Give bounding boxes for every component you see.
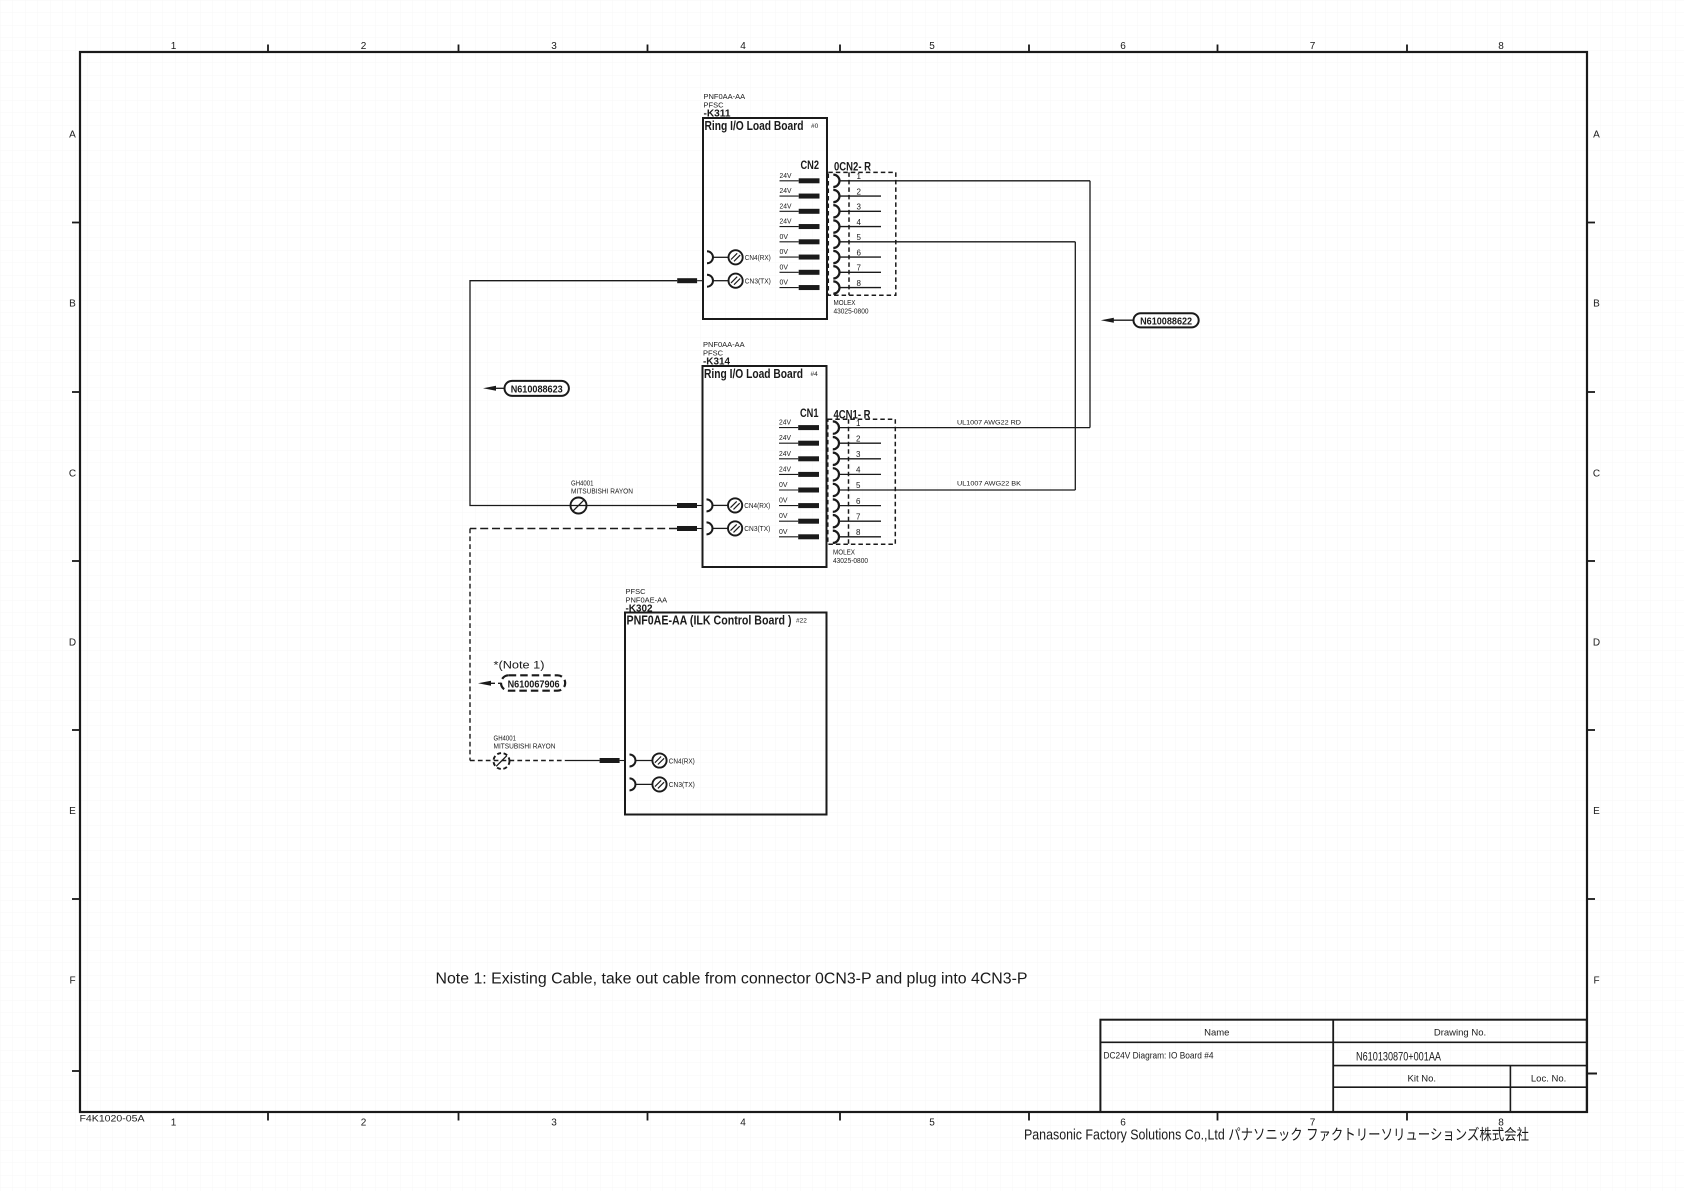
svg-text:Panasonic Factory Solutions Co: Panasonic Factory Solutions Co.,Ltd パナソニ… [1024,1127,1529,1144]
svg-text:2: 2 [361,41,367,52]
cable end ferrule at K302 CN4(RX) [600,758,620,763]
svg-text:CN3(TX): CN3(TX) [669,780,695,789]
svg-text:N610067906: N610067906 [508,679,560,690]
svg-text:1: 1 [171,1118,177,1129]
svg-text:C: C [69,469,76,480]
title block divider kit/loc [1509,1066,1511,1112]
wire cable N610088623 from K311 CN3(TX) to K314 CN4(RX) [470,281,677,506]
part tag N610067906 (dashed) [501,675,565,690]
svg-text:3: 3 [856,450,861,459]
port CN3(TX) of K314 [707,522,713,534]
svg-text:Ring I/O Load Board: Ring I/O Load Board [704,366,803,381]
svg-text:F: F [1593,976,1599,987]
svg-text:#22: #22 [796,618,807,625]
wire UL1007 AWG22 RD from 0CN2-R pin1 to 4CN1-R pin1 [1089,181,1091,428]
svg-text:Kit No.: Kit No. [1408,1074,1437,1085]
svg-text:24V: 24V [779,464,791,473]
svg-text:GH4001: GH4001 [571,481,594,488]
right edge tick at title block [1587,1073,1597,1075]
cable marker GH4001 MITSUBISHI RAYON (dashed) on cable N610067906 [494,753,510,769]
svg-text:1: 1 [171,41,177,52]
svg-text:Note 1: Existing Cable, take o: Note 1: Existing Cable, take out cable f… [436,971,1028,988]
svg-text:6: 6 [857,248,862,257]
svg-text:8: 8 [857,279,862,288]
svg-text:CN3(TX): CN3(TX) [744,524,770,533]
svg-text:DC24V Diagram: IO Board #4: DC24V Diagram: IO Board #4 [1104,1051,1214,1061]
svg-text:CN4(RX): CN4(RX) [669,756,695,765]
svg-text:Drawing No.: Drawing No. [1434,1028,1486,1039]
part tag N610088623 [505,381,569,396]
svg-text:UL1007 AWG22 BK: UL1007 AWG22 BK [957,480,1021,487]
svg-text:CN4(RX): CN4(RX) [744,501,770,510]
svg-text:D: D [1593,638,1600,649]
svg-text:43025-0800: 43025-0800 [833,556,868,565]
svg-text:0V: 0V [779,511,788,520]
cable end ferrule at K311 CN3(TX) [677,278,697,283]
arrow leader for N610088623 [490,387,505,389]
svg-text:3: 3 [857,203,862,212]
cable connector dashed housing 0CN2- R [828,172,896,295]
port CN3(TX) of K302 [630,778,636,790]
svg-text:MITSUBISHI RAYON: MITSUBISHI RAYON [494,744,556,751]
title block outline [1100,1020,1586,1112]
svg-text:#0: #0 [811,123,819,130]
svg-text:8: 8 [856,528,861,537]
svg-text:24V: 24V [780,217,792,226]
svg-text:4: 4 [740,41,746,52]
svg-text:N610088623: N610088623 [511,384,563,395]
title block header underline [1100,1041,1586,1043]
svg-text:24V: 24V [779,433,791,442]
svg-text:B: B [1593,299,1600,310]
port CN4(RX) of K302 [630,755,636,767]
svg-text:#4: #4 [811,371,819,378]
part tag N610088622 [1134,313,1199,327]
svg-text:6: 6 [1120,41,1126,52]
svg-text:4: 4 [856,466,861,475]
svg-text:6: 6 [856,497,861,506]
port CN4(RX) of K311 [707,251,713,263]
svg-text:7: 7 [857,264,862,273]
svg-text:1: 1 [856,419,861,428]
svg-text:CN1: CN1 [800,408,819,420]
svg-text:CN3(TX): CN3(TX) [745,277,771,286]
title block divider name/drawing [1332,1020,1334,1112]
svg-text:Loc. No.: Loc. No. [1531,1074,1566,1085]
arrow leader for N610088622 [1112,319,1134,321]
svg-text:7: 7 [1310,41,1316,52]
svg-text:24V: 24V [779,418,791,427]
title block line under drawing number [1333,1065,1587,1067]
svg-text:C: C [1593,469,1600,480]
port CN3(TX) of K311 [707,275,713,287]
svg-text:24V: 24V [780,186,792,195]
svg-text:0V: 0V [779,496,788,505]
svg-text:CN2: CN2 [801,160,820,172]
svg-text:A: A [1593,130,1600,141]
title block line under kit/loc header [1333,1086,1587,1088]
svg-text:MITSUBISHI RAYON: MITSUBISHI RAYON [571,489,633,496]
svg-text:*(Note 1): *(Note 1) [494,660,545,672]
svg-text:7: 7 [856,512,861,521]
svg-text:Ring I/O Load Board: Ring I/O Load Board [705,118,804,133]
svg-text:UL1007 AWG22 RD: UL1007 AWG22 RD [957,419,1021,426]
wire dashed cable N610067906 from K314 CN3(TX) to K302 CN4(RX) [470,528,677,530]
svg-text:F4K1020-05A: F4K1020-05A [80,1114,146,1125]
dashed contact line inside 4CN1- R [848,419,850,544]
svg-text:24V: 24V [779,449,791,458]
svg-text:GH4001: GH4001 [494,736,517,743]
left border zone ticks [72,222,80,224]
dashed contact line inside 0CN2- R [848,172,850,295]
svg-text:0V: 0V [780,278,789,287]
svg-text:24V: 24V [780,171,792,180]
svg-text:N610130870+001AA: N610130870+001AA [1356,1052,1441,1064]
svg-text:0V: 0V [780,262,789,271]
svg-text:0V: 0V [779,480,788,489]
drawing border frame [80,52,1587,1112]
svg-text:24V: 24V [780,201,792,210]
svg-text:E: E [1593,806,1600,817]
wire UL1007 AWG22 BK from 0CN2-R pin5 to 4CN1-R pin5 [1074,242,1076,490]
board outline K314 [703,366,827,567]
bottom border zone ticks [267,1112,269,1121]
top border zone ticks [267,45,269,53]
svg-text:F: F [69,976,75,987]
svg-text:2: 2 [856,434,861,443]
svg-text:0V: 0V [780,247,789,256]
svg-text:5: 5 [929,1118,935,1129]
svg-text:4: 4 [857,218,862,227]
right border zone ticks [1587,222,1595,224]
svg-text:A: A [69,130,76,141]
svg-text:8: 8 [1498,41,1504,52]
arrow leader for N610067906 [490,682,501,684]
svg-text:CN4(RX): CN4(RX) [745,253,771,262]
svg-text:1: 1 [857,172,862,181]
board outline K311 [703,118,827,319]
svg-text:43025-0800: 43025-0800 [834,307,869,316]
svg-text:3: 3 [551,41,557,52]
svg-text:B: B [69,299,76,310]
svg-text:0V: 0V [780,232,789,241]
svg-text:5: 5 [929,41,935,52]
cable end ferrule at K314 CN3(TX) [677,526,697,531]
svg-text:Name: Name [1204,1028,1229,1039]
svg-text:PNF0AE-AA (ILK Control Board: PNF0AE-AA (ILK Control Board ) [627,613,792,628]
svg-text:3: 3 [551,1118,557,1129]
board outline K302 [625,613,827,815]
svg-text:5: 5 [857,233,862,242]
svg-text:E: E [69,806,76,817]
port CN4(RX) of K314 [707,499,713,511]
wire solid tail into K302 CN4(RX) [565,760,600,762]
svg-text:2: 2 [361,1118,367,1129]
cable connector dashed housing 4CN1- R [828,419,896,544]
svg-text:2: 2 [857,187,862,196]
svg-text:5: 5 [856,481,861,490]
svg-text:0V: 0V [779,527,788,536]
cable marker GH4001 MITSUBISHI RAYON on cable N610088623 [571,498,587,514]
cable end ferrule at K314 CN4(RX) [677,503,697,508]
svg-text:D: D [69,638,76,649]
svg-text:N610088622: N610088622 [1140,316,1192,327]
svg-text:4: 4 [740,1118,746,1129]
